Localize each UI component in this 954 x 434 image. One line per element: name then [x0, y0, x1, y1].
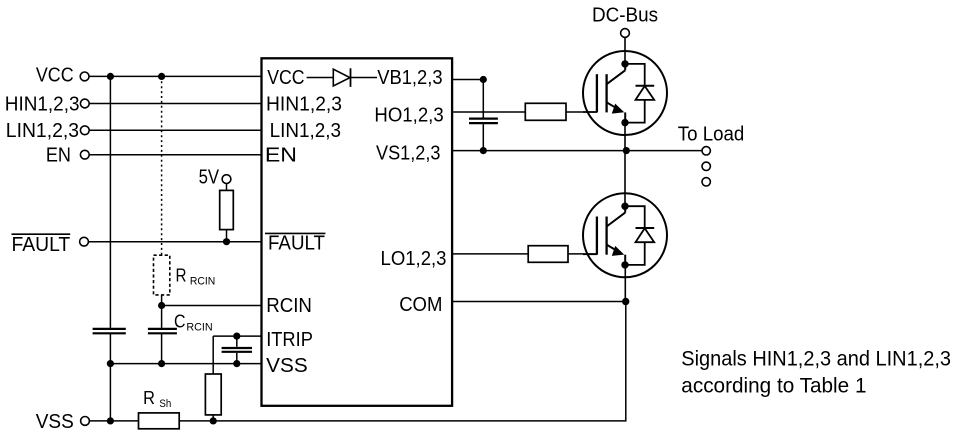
IC block U1: [262, 58, 453, 406]
overline FAULT U1: [265, 232, 325, 234]
wire HO pin to gate resistor: [452, 111, 525, 113]
gate resistor high side: [525, 103, 566, 120]
junction Q2 collector: [621, 203, 628, 210]
wire VS node to Q2 collector: [624, 151, 626, 207]
junction RCIN node: [158, 302, 165, 309]
gate resistor low side: [528, 246, 568, 263]
svg-text:EN: EN: [265, 145, 297, 167]
svg-text:VS1,2,3: VS1,2,3: [376, 143, 441, 165]
wire CRCIN bottom lead: [161, 334, 163, 364]
wire left cap to VSS rail: [109, 334, 111, 421]
junction ITRIP cap on VSS rail: [233, 360, 240, 367]
svg-text:VSS: VSS: [266, 355, 308, 377]
wire 5V lead top: [226, 184, 228, 191]
junction ITRIP resistor on return rail: [210, 417, 217, 424]
svg-text:HO1,2,3: HO1,2,3: [374, 105, 443, 127]
capacitor CRCIN bottom plate: [148, 332, 177, 334]
resistor RRCIN (dashed): [154, 255, 170, 295]
svg-text:LIN1,2,3: LIN1,2,3: [270, 120, 341, 142]
svg-text:RCIN: RCIN: [266, 295, 312, 317]
terminal DC-Bus: [621, 29, 630, 38]
junction VS bootstrap node: [480, 147, 487, 154]
wire ITRIP pin: [213, 335, 261, 337]
junction VS phase node: [623, 147, 630, 154]
wire EN input: [89, 154, 262, 156]
junction left line on return rail: [107, 417, 114, 424]
junction Q1 collector: [621, 60, 628, 67]
internal bootstrap diode: [307, 68, 377, 87]
terminal FAULT: [80, 237, 89, 246]
svg-text:RCIN: RCIN: [186, 322, 212, 334]
svg-text:RCIN: RCIN: [190, 276, 215, 288]
wire RCIN pin: [162, 305, 262, 307]
svg-text:according to Table 1: according to Table 1: [681, 374, 866, 398]
wire FAULT input: [89, 241, 262, 243]
svg-text:Signals HIN1,2,3 and LIN1,2,3: Signals HIN1,2,3 and LIN1,2,3: [681, 346, 951, 370]
wire ITRIP cap bottom lead: [236, 353, 238, 364]
capacitor VCC filter top plate: [93, 328, 126, 330]
capacitor VCC filter bottom plate: [93, 332, 126, 334]
terminal To Load phase 3: [702, 178, 710, 186]
terminal VSS: [81, 417, 90, 426]
freewheel diode D1: [625, 64, 654, 123]
svg-text:HIN1,2,3: HIN1,2,3: [266, 93, 342, 115]
wire VSS rail: [110, 363, 261, 365]
wire COM pin: [452, 301, 626, 303]
junction ITRIP cap top: [233, 333, 240, 340]
resistor 5V pull-up: [220, 190, 234, 229]
wire DC-Bus to Q1 collector: [624, 38, 626, 64]
svg-text:VCC: VCC: [267, 67, 304, 89]
svg-text:VSS: VSS: [36, 411, 74, 433]
wire ITRIP resistor bottom lead: [212, 415, 214, 421]
svg-text:FAULT: FAULT: [12, 234, 71, 256]
wire VSS terminal to RSh: [90, 420, 139, 422]
freewheel diode D2: [625, 206, 654, 265]
wire ITRIP cap top lead: [236, 336, 238, 347]
terminal EN: [80, 150, 89, 159]
wire RRCIN to RCIN pin node: [161, 295, 163, 306]
svg-text:EN: EN: [46, 145, 71, 167]
svg-text:To Load: To Load: [678, 123, 744, 145]
wire 5V resistor to FAULT: [226, 230, 228, 242]
overline FAULT terminal: [12, 233, 71, 235]
wire dotted VCC to RRCIN: [161, 76, 163, 255]
terminal To Load phase 2: [702, 162, 710, 170]
resistor ITRIP series: [205, 374, 221, 415]
svg-text:DC-Bus: DC-Bus: [592, 4, 658, 26]
svg-text:COM: COM: [399, 294, 442, 316]
terminal HIN: [80, 99, 89, 108]
svg-text:Sh: Sh: [159, 398, 171, 410]
svg-text:VCC: VCC: [36, 65, 74, 87]
terminal To Load phase 1: [702, 147, 710, 155]
IGBT Q2 low side: [583, 193, 667, 277]
svg-text:FAULT: FAULT: [268, 233, 325, 255]
terminal VCC: [80, 72, 89, 81]
wire Q1 emitter to VS node: [624, 123, 626, 151]
svg-text:R: R: [176, 266, 187, 286]
wire gate resistor to Q2 gate: [568, 253, 597, 255]
bootstrap capacitor top plate: [469, 117, 498, 119]
svg-text:HIN1,2,3: HIN1,2,3: [5, 93, 80, 115]
wire VCC branch vertical left: [109, 76, 111, 328]
capacitor ITRIP filter top plate: [222, 347, 252, 349]
svg-text:5V: 5V: [199, 167, 220, 189]
resistor RSh shunt: [139, 413, 180, 429]
wire LIN input: [89, 129, 262, 131]
bootstrap capacitor bottom plate: [469, 122, 498, 124]
svg-text:VB1,2,3: VB1,2,3: [377, 67, 442, 89]
junction CRCIN on VSS rail: [158, 360, 165, 367]
svg-text:C: C: [174, 312, 186, 332]
svg-text:ITRIP: ITRIP: [266, 329, 313, 351]
wire bootstrap cap top lead: [482, 80, 484, 118]
svg-text:LIN1,2,3: LIN1,2,3: [6, 120, 79, 142]
svg-text:LO1,2,3: LO1,2,3: [381, 248, 447, 270]
wire COM node down to return rail: [625, 302, 627, 421]
junction COM node: [622, 298, 629, 305]
terminal 5V: [222, 175, 231, 184]
junction VCC dotted branch: [158, 73, 165, 80]
IGBT Q1 high side: [583, 51, 667, 135]
wire gate resistor to Q1 gate: [566, 111, 597, 113]
wire ITRIP corner down: [212, 336, 214, 374]
junction Q2 emitter: [621, 261, 628, 268]
wire LO pin to gate resistor: [452, 253, 528, 255]
capacitor ITRIP filter bottom plate: [222, 351, 252, 353]
wire VB pin: [452, 79, 483, 81]
wire VCC input: [89, 75, 262, 77]
terminal LIN: [80, 126, 89, 135]
wire bootstrap cap bottom lead: [482, 124, 484, 151]
wire HIN input: [89, 103, 262, 105]
wire VS pin to load: [452, 150, 702, 152]
junction 5V pull-up on FAULT: [223, 238, 230, 245]
wire Q2 emitter to COM node: [624, 265, 626, 302]
wire RSh to COM return: [179, 420, 626, 422]
capacitor CRCIN top plate: [148, 328, 177, 330]
wire CRCIN top lead: [161, 306, 163, 329]
svg-text:R: R: [143, 388, 155, 408]
junction VCC left branch: [107, 73, 114, 80]
junction Q1 emitter: [621, 119, 628, 126]
junction VSS rail left: [107, 360, 114, 367]
junction VB node: [480, 76, 487, 83]
